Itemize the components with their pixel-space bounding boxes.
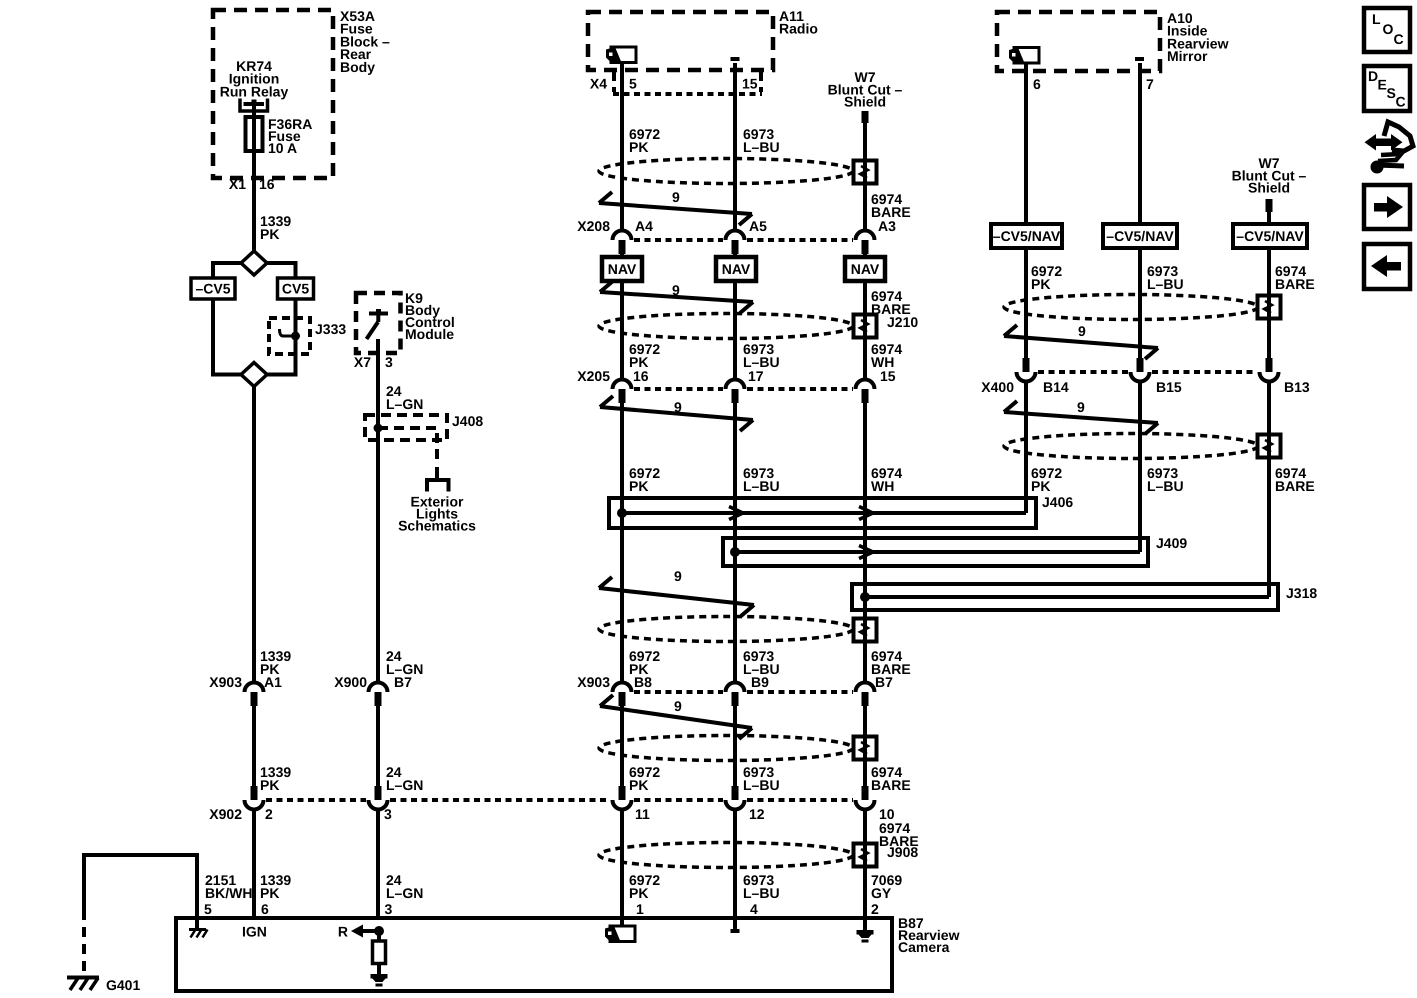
wire 6972 PK below NAV <box>620 281 624 380</box>
svg-text:B7: B7 <box>875 674 893 690</box>
svg-text:Camera: Camera <box>898 939 950 955</box>
svg-text:PK: PK <box>1031 478 1050 494</box>
legend LOC box <box>1364 8 1410 52</box>
wires right columns to X400 <box>1024 248 1028 358</box>
svg-text:B13: B13 <box>1284 379 1310 395</box>
option box -CV5/NAV 1 <box>991 224 1062 248</box>
relay KR74 contact <box>240 99 268 112</box>
dashed branch from J408 <box>378 428 437 461</box>
svg-text:J406: J406 <box>1042 494 1073 510</box>
ground wire from camera pin 5 <box>195 855 199 929</box>
svg-text:Body: Body <box>340 59 375 75</box>
svg-text:PK: PK <box>629 777 648 793</box>
svg-text:BARE: BARE <box>871 777 911 793</box>
svg-text:X900: X900 <box>334 674 367 690</box>
svg-text:–CV5/NAV: –CV5/NAV <box>1106 228 1174 244</box>
wire from W7 right stub <box>1267 212 1271 224</box>
svg-text:15: 15 <box>880 368 896 384</box>
fork symbol to other schematic <box>435 467 439 480</box>
shield termination J908 <box>854 844 877 867</box>
shield ellipse E3 <box>599 617 853 642</box>
svg-text:C: C <box>1396 94 1406 110</box>
svg-text:R: R <box>338 924 348 940</box>
svg-text:6: 6 <box>1033 76 1041 92</box>
wires below X400 <box>1024 382 1028 514</box>
svg-text:WH: WH <box>871 478 894 494</box>
fuse F36RA <box>246 117 263 151</box>
svg-text:12: 12 <box>749 806 765 822</box>
option box NAV 3 <box>845 257 885 281</box>
ground G401 <box>67 976 99 980</box>
wire 6972 PK from radio pin 5 <box>620 63 624 231</box>
shield ellipse E2 <box>599 314 853 339</box>
svg-text:NAV: NAV <box>608 261 637 277</box>
svg-text:B15: B15 <box>1156 379 1182 395</box>
svg-text:L–GN: L–GN <box>386 661 423 677</box>
wire fuse to connector X1 <box>252 151 256 251</box>
splice bus J318 tube <box>852 584 1278 610</box>
shield ellipse E4 <box>599 736 853 761</box>
svg-text:L–GN: L–GN <box>386 777 423 793</box>
svg-text:NAV: NAV <box>851 261 880 277</box>
svg-text:X902: X902 <box>209 806 242 822</box>
junction diamond bottom <box>213 373 241 377</box>
svg-text:15: 15 <box>742 76 758 92</box>
svg-text:X903: X903 <box>209 674 242 690</box>
svg-text:PK: PK <box>260 777 279 793</box>
svg-text:16: 16 <box>633 368 649 384</box>
svg-text:9: 9 <box>672 189 680 205</box>
svg-text:J318: J318 <box>1286 585 1317 601</box>
svg-text:L–BU: L–BU <box>743 885 780 901</box>
shield ellipse E7 <box>1004 434 1258 459</box>
svg-text:B8: B8 <box>634 674 652 690</box>
splice bus J406 line <box>622 511 1026 515</box>
shield termination box on drain wire <box>854 161 877 184</box>
svg-text:2: 2 <box>265 806 273 822</box>
shield termination box E4 <box>854 737 877 760</box>
wire 6973 L-BU from radio pin 15 <box>733 63 737 231</box>
wire 6973 L-BU below X205 <box>733 403 737 683</box>
option box CV5 <box>278 278 314 299</box>
svg-text:J408: J408 <box>452 413 483 429</box>
svg-text:–CV5: –CV5 <box>195 281 230 297</box>
wires below X902 row <box>252 810 256 919</box>
chassis ground inside camera pin 5 <box>189 928 206 931</box>
svg-text:J409: J409 <box>1156 535 1187 551</box>
svg-text:L–GN: L–GN <box>386 885 423 901</box>
wire left branch lower <box>211 299 215 377</box>
svg-text:17: 17 <box>748 368 764 384</box>
wire pin4 to minus <box>733 918 737 929</box>
camera icon in A10 <box>1014 48 1039 64</box>
svg-text:4: 4 <box>750 901 758 917</box>
legend back arrow box <box>1364 244 1410 289</box>
svg-text:Run Relay: Run Relay <box>220 83 289 99</box>
wire pin2 to signal ground <box>863 918 867 930</box>
svg-text:CV5: CV5 <box>282 281 309 297</box>
svg-text:PK: PK <box>260 885 279 901</box>
component B87 Rearview Camera box <box>176 918 892 991</box>
svg-text:1: 1 <box>636 901 644 917</box>
wire 6974 shield drain from W7 <box>863 123 867 231</box>
minus terminal in A11 <box>731 57 740 61</box>
svg-text:J210: J210 <box>887 314 918 330</box>
splice bus J409 line <box>735 550 1140 554</box>
svg-text:PK: PK <box>260 661 279 677</box>
legend DESC box <box>1364 66 1410 111</box>
svg-text:L–BU: L–BU <box>743 777 780 793</box>
svg-text:Module: Module <box>405 326 454 342</box>
svg-text:A3: A3 <box>878 218 896 234</box>
splice J408 junction dot <box>374 424 383 433</box>
svg-text:Schematics: Schematics <box>398 518 476 534</box>
svg-text:L: L <box>1372 11 1381 27</box>
svg-text:9: 9 <box>674 698 682 714</box>
switch inside K9 <box>369 312 388 316</box>
svg-text:3: 3 <box>385 354 393 370</box>
wire right branch lower <box>294 299 298 377</box>
svg-text:GY: GY <box>871 885 892 901</box>
svg-text:7: 7 <box>1146 76 1154 92</box>
svg-text:X903: X903 <box>577 674 610 690</box>
svg-text:PK: PK <box>629 885 648 901</box>
minus terminal in A10 <box>1135 57 1144 61</box>
svg-text:L–BU: L–BU <box>743 478 780 494</box>
splice bus J318 line <box>865 595 1269 599</box>
wire 6972 PK below X205 <box>620 403 624 683</box>
svg-text:Shield: Shield <box>1248 180 1290 196</box>
svg-text:X400: X400 <box>981 379 1014 395</box>
svg-text:L–BU: L–BU <box>743 139 780 155</box>
svg-text:Shield: Shield <box>844 94 886 110</box>
shield ellipse E1 <box>599 159 853 184</box>
svg-text:BK/WH: BK/WH <box>205 885 252 901</box>
svg-text:X7: X7 <box>354 354 371 370</box>
shield termination J210 <box>854 315 877 338</box>
blunt cut stub middle <box>862 111 869 123</box>
signal ground below resistor <box>371 974 388 979</box>
svg-text:5: 5 <box>629 76 637 92</box>
svg-text:X1: X1 <box>229 176 246 192</box>
svg-text:L–BU: L–BU <box>1147 478 1184 494</box>
option box NAV 1 <box>602 257 642 281</box>
camera icon in A11 <box>611 47 636 63</box>
svg-text:Mirror: Mirror <box>1167 48 1208 64</box>
blunt cut stub right <box>1266 199 1273 212</box>
svg-text:BARE: BARE <box>1275 478 1315 494</box>
splice bus J406 tube <box>609 498 1036 528</box>
svg-text:9: 9 <box>1077 399 1085 415</box>
svg-text:5: 5 <box>204 901 212 917</box>
wire from K9 down <box>376 339 380 683</box>
svg-text:PK: PK <box>260 226 279 242</box>
legend twisted wires icon <box>1373 139 1394 147</box>
svg-text:9: 9 <box>1078 323 1086 339</box>
wire 6973 L-BU below NAV <box>733 281 737 380</box>
minus terminal inside B87 <box>731 929 740 933</box>
wire 6974 below NAV <box>863 281 867 380</box>
camera icon inside B87 <box>610 926 635 942</box>
wire right branch <box>294 261 298 278</box>
shield termination box E3 <box>854 619 877 642</box>
splice J333 dashed box <box>269 318 310 354</box>
option box NAV 2 <box>716 257 756 281</box>
module K9 dashed box <box>356 293 401 353</box>
wire stubs into NAV boxes <box>620 254 624 257</box>
wire pin1 to camera icon <box>620 918 624 926</box>
shield ellipse E6 <box>1004 295 1258 320</box>
svg-text:3: 3 <box>385 901 393 917</box>
svg-text:O: O <box>1383 21 1394 37</box>
option box -CV5/NAV 2 <box>1103 224 1177 248</box>
wire 6974 WH below X205 <box>863 403 867 683</box>
component A10 Inside Rearview Mirror dashed box <box>997 12 1160 71</box>
splice J333 symbol <box>280 329 296 336</box>
svg-text:J908: J908 <box>887 844 918 860</box>
svg-text:A4: A4 <box>635 218 653 234</box>
option box -CV5/NAV 3 <box>1233 224 1307 248</box>
svg-text:X4: X4 <box>590 76 607 92</box>
svg-text:B9: B9 <box>751 674 769 690</box>
svg-text:L–BU: L–BU <box>1147 276 1184 292</box>
svg-text:L–GN: L–GN <box>386 396 423 412</box>
svg-text:X205: X205 <box>577 368 610 384</box>
svg-text:X208: X208 <box>577 218 610 234</box>
wires below X903 row <box>252 706 256 786</box>
shield termination box E7 <box>1258 435 1281 458</box>
svg-text:S: S <box>1387 85 1396 101</box>
svg-text:J333: J333 <box>315 321 346 337</box>
junction diamond top <box>241 251 267 275</box>
svg-text:C: C <box>1394 31 1404 47</box>
component A11 Radio dashed box <box>588 12 773 70</box>
svg-text:PK: PK <box>629 139 648 155</box>
svg-text:–CV5/NAV: –CV5/NAV <box>993 228 1061 244</box>
option box -CV5 <box>191 278 235 299</box>
svg-text:16: 16 <box>259 176 275 192</box>
fuse block X53A dashed box <box>213 10 333 178</box>
svg-text:NAV: NAV <box>722 261 751 277</box>
splice J408 dashed box <box>365 415 447 440</box>
svg-text:Radio: Radio <box>779 21 818 37</box>
svg-text:PK: PK <box>629 478 648 494</box>
splice bus J409 tube <box>723 538 1148 566</box>
svg-text:G401: G401 <box>106 977 140 993</box>
svg-text:BARE: BARE <box>1275 276 1315 292</box>
connector X4 strip <box>612 72 616 92</box>
svg-text:E: E <box>1378 77 1387 93</box>
svg-text:–CV5/NAV: –CV5/NAV <box>1236 228 1304 244</box>
svg-text:9: 9 <box>674 568 682 584</box>
shield ellipse E5 <box>599 843 853 868</box>
wire 6973 L-BU from mirror pin 7 <box>1138 63 1142 224</box>
svg-text:2: 2 <box>871 901 879 917</box>
svg-text:6: 6 <box>261 901 269 917</box>
signal ground camera pin 2 <box>857 930 874 935</box>
wire 1339 PK down to X903 <box>252 387 256 683</box>
dashed ground wire to G401 <box>82 910 86 974</box>
svg-text:B14: B14 <box>1043 379 1069 395</box>
shield termination box E6 <box>1258 296 1281 319</box>
svg-text:A5: A5 <box>749 218 767 234</box>
wire left branch <box>211 261 215 278</box>
svg-text:10 A: 10 A <box>268 140 297 156</box>
svg-text:IGN: IGN <box>242 924 267 940</box>
svg-text:PK: PK <box>1031 276 1050 292</box>
svg-text:11: 11 <box>635 806 650 822</box>
wire 6972 PK from mirror pin 6 <box>1024 63 1028 224</box>
wire branch top horizontals <box>213 261 241 265</box>
legend forward arrow box <box>1364 185 1410 229</box>
resistor inside camera <box>377 931 381 941</box>
